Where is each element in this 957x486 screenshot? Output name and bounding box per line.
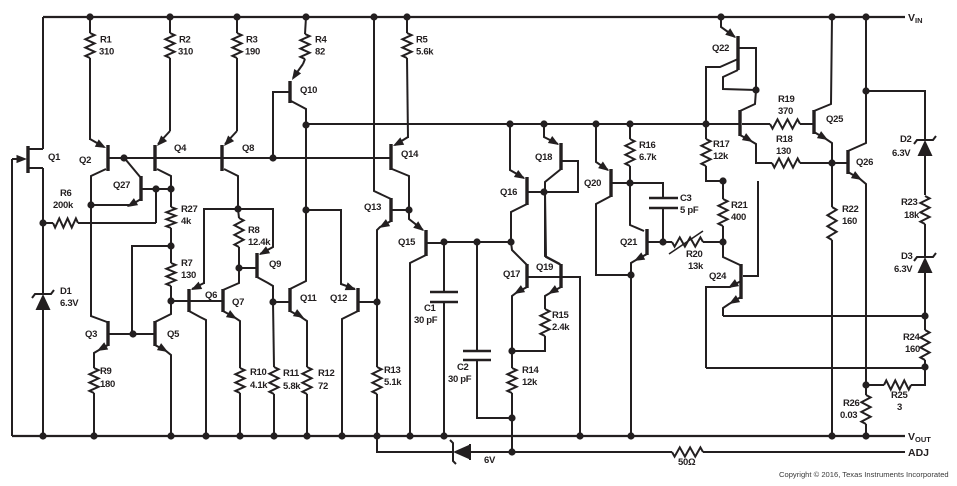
svg-text:Q3: Q3 bbox=[85, 329, 97, 340]
transistor Q14 bbox=[391, 137, 409, 210]
svg-text:5.6k: 5.6k bbox=[416, 46, 434, 57]
junction Q25 emitter / R18 / Q26 base / R22 bbox=[828, 159, 835, 166]
label D4 6V bbox=[484, 455, 496, 466]
transistor Q1 bbox=[12, 146, 43, 173]
transistor Q18 bbox=[544, 124, 578, 264]
label R12 72 bbox=[318, 368, 335, 392]
svg-text:5.8k: 5.8k bbox=[283, 381, 301, 392]
transistor Q7 bbox=[223, 268, 240, 368]
junction VOUT rail / R10 bbox=[236, 432, 243, 439]
label C3 5 pF bbox=[680, 193, 699, 216]
junction D3 / R24 / Q24 emitter2 bbox=[921, 312, 928, 319]
resistor R14 bbox=[507, 351, 516, 452]
label R18 130 bbox=[776, 134, 793, 157]
zener D1 bbox=[32, 223, 54, 436]
label Q6 bbox=[205, 290, 217, 301]
junction top rail / Q22 bbox=[717, 13, 724, 20]
svg-text:Q4: Q4 bbox=[174, 143, 187, 154]
svg-text:3: 3 bbox=[897, 402, 902, 413]
svg-text:5.1k: 5.1k bbox=[384, 377, 402, 388]
junction top rail / Q25 bbox=[828, 13, 835, 20]
resistor R2 bbox=[165, 17, 174, 131]
resistor R1 bbox=[85, 17, 94, 140]
label Q21 bbox=[620, 237, 638, 248]
label Q22 bbox=[712, 43, 729, 54]
label Q16 bbox=[500, 187, 517, 198]
resistor R7 bbox=[166, 246, 175, 301]
transistor Q11 bbox=[273, 125, 307, 367]
svg-text:6.3V: 6.3V bbox=[892, 148, 911, 159]
svg-text:18k: 18k bbox=[904, 210, 920, 221]
svg-text:13k: 13k bbox=[688, 261, 704, 272]
junction base bus / Q27 collector bbox=[120, 154, 127, 161]
junction VOUT rail / C1 bbox=[440, 432, 447, 439]
resistor R24 bbox=[920, 316, 929, 367]
svg-text:Q1: Q1 bbox=[48, 152, 61, 163]
label R11 5.8k bbox=[283, 368, 301, 392]
resistor R4 bbox=[300, 17, 309, 64]
transistor Q10 bbox=[273, 64, 306, 158]
svg-text:Q16: Q16 bbox=[500, 187, 517, 198]
svg-text:R9: R9 bbox=[100, 366, 112, 377]
label R14 12k bbox=[522, 365, 540, 388]
svg-text:R25: R25 bbox=[891, 390, 909, 401]
resistor R22 bbox=[827, 163, 836, 436]
svg-text:Q24: Q24 bbox=[709, 271, 727, 282]
resistor R26 bbox=[861, 385, 870, 436]
svg-text:R14: R14 bbox=[522, 365, 540, 376]
transistor Q26 bbox=[832, 17, 866, 385]
svg-text:130: 130 bbox=[776, 146, 791, 157]
resistor R16 bbox=[625, 124, 634, 183]
svg-text:310: 310 bbox=[99, 46, 114, 57]
svg-text:R26: R26 bbox=[843, 398, 860, 409]
label Q26 bbox=[856, 157, 873, 168]
junction top rail / R4 bbox=[302, 13, 309, 20]
svg-text:Q9: Q9 bbox=[269, 259, 281, 270]
svg-text:370: 370 bbox=[778, 106, 793, 117]
svg-text:R6: R6 bbox=[60, 188, 72, 199]
svg-text:R3: R3 bbox=[246, 34, 258, 45]
copyright notice bbox=[779, 470, 949, 479]
resistor R11 bbox=[269, 302, 278, 436]
svg-text:Q12: Q12 bbox=[330, 293, 347, 304]
svg-text:Q22: Q22 bbox=[712, 43, 729, 54]
svg-text:6V: 6V bbox=[484, 455, 496, 466]
svg-text:C3: C3 bbox=[680, 193, 692, 204]
wire R27 bottom to Q3-Q5 base bbox=[132, 246, 171, 334]
junction C1 top bbox=[440, 238, 447, 245]
label R3 190 bbox=[245, 34, 260, 57]
resistor R15 bbox=[512, 309, 550, 351]
svg-text:Q7: Q7 bbox=[232, 297, 244, 308]
junction R20 / R21 / Q24 collector bbox=[719, 238, 726, 245]
label Q15 bbox=[398, 237, 416, 248]
svg-text:6.7k: 6.7k bbox=[639, 152, 657, 163]
label R8 12.4k bbox=[248, 225, 271, 248]
junction second rail / R16 bbox=[626, 120, 633, 127]
label Q10 bbox=[300, 85, 317, 96]
resistor R10 bbox=[235, 368, 244, 436]
label R7 130 bbox=[181, 258, 196, 281]
junction Q16-Q17 collectors bbox=[507, 238, 514, 245]
svg-text:4k: 4k bbox=[181, 216, 192, 227]
svg-text:R2: R2 bbox=[179, 34, 191, 45]
label Q4 bbox=[174, 143, 187, 154]
resistor R25 bbox=[866, 367, 925, 390]
label R24 160 bbox=[903, 332, 921, 355]
wire base bus bbox=[108, 157, 391, 159]
label R27 4k bbox=[181, 204, 198, 227]
svg-text:Q8: Q8 bbox=[242, 143, 254, 154]
label D3 6.3V bbox=[894, 251, 913, 275]
svg-text:50Ω: 50Ω bbox=[678, 457, 696, 468]
svg-text:Q17: Q17 bbox=[503, 269, 520, 280]
junction second rail / Q10 collector bbox=[302, 121, 309, 128]
junction Q21 emitter / Q20 collector bbox=[627, 271, 634, 278]
transistor Q21 bbox=[630, 183, 663, 436]
label Q27 bbox=[113, 180, 130, 191]
resistor R3 bbox=[232, 17, 241, 131]
svg-text:30 pF: 30 pF bbox=[448, 374, 472, 385]
transistor Q24 bbox=[706, 181, 758, 368]
wire second rail bbox=[306, 123, 740, 125]
label R6 200k bbox=[53, 188, 74, 211]
svg-text:D3: D3 bbox=[901, 251, 913, 262]
svg-text:Q26: Q26 bbox=[856, 157, 873, 168]
svg-text:R20: R20 bbox=[686, 249, 703, 260]
svg-text:R12: R12 bbox=[318, 368, 335, 379]
junction Q17 emitter / R15 / R14 bbox=[508, 347, 515, 354]
wire VIN top rail bbox=[43, 16, 905, 18]
capacitor C1 bbox=[430, 242, 458, 436]
label R5 5.6k bbox=[416, 34, 434, 57]
label Q17 bbox=[503, 269, 520, 280]
label Q7 bbox=[232, 297, 244, 308]
junction Q22 base-collector / Q23 collector bbox=[752, 86, 759, 93]
svg-text:12k: 12k bbox=[713, 151, 729, 162]
junction second rail / R17 / Q22 collector bbox=[702, 120, 709, 127]
svg-text:Q14: Q14 bbox=[401, 149, 419, 160]
junction VOUT rail / R11 bbox=[270, 432, 277, 439]
svg-text:6.3V: 6.3V bbox=[60, 298, 79, 309]
label R2 310 bbox=[178, 34, 193, 57]
label R23 18k bbox=[901, 197, 920, 221]
label Q2 bbox=[79, 155, 91, 166]
svg-text:12.4k: 12.4k bbox=[248, 237, 271, 248]
label R20 13k bbox=[686, 249, 704, 272]
transistor Q8 bbox=[222, 131, 238, 209]
label Q19 bbox=[536, 262, 553, 273]
junction VOUT rail / Q12 bbox=[338, 432, 345, 439]
junction Q3-Q5 base bbox=[129, 330, 136, 337]
junction VOUT rail / Q6 bbox=[202, 432, 209, 439]
svg-text:2.4k: 2.4k bbox=[552, 322, 570, 333]
label R9 180 bbox=[100, 366, 115, 390]
label Q24 bbox=[709, 271, 727, 282]
svg-text:R10: R10 bbox=[250, 367, 267, 378]
svg-text:Q13: Q13 bbox=[364, 202, 381, 213]
junction top rail / R1 bbox=[86, 13, 93, 20]
junction VOUT rail / R26 bbox=[862, 432, 869, 439]
wire Q27 base to R6 bbox=[155, 189, 157, 223]
junction R8 / Q9 base / Q7 collector bbox=[235, 264, 242, 271]
junction VOUT rail / R13/ADJ bbox=[373, 432, 380, 439]
junction second rail / Q16 emitter bbox=[506, 120, 513, 127]
svg-text:R18: R18 bbox=[776, 134, 793, 145]
resistor R17 bbox=[701, 124, 723, 181]
label R17 12k bbox=[713, 139, 730, 162]
wire Q26 collector to D2 bbox=[866, 91, 925, 133]
transistor Q6 bbox=[189, 282, 206, 436]
label Q14 bbox=[401, 149, 419, 160]
label R22 160 bbox=[842, 204, 859, 227]
resistor R12 bbox=[302, 367, 311, 436]
label Q9 bbox=[269, 259, 281, 270]
junction Q14 collector / Q13 base / Q15 emitter bbox=[405, 206, 412, 213]
svg-text:D2: D2 bbox=[900, 134, 912, 145]
svg-text:6.3V: 6.3V bbox=[894, 264, 913, 275]
svg-text:Q6: Q6 bbox=[205, 290, 217, 301]
transistor Q9 bbox=[239, 209, 273, 302]
junction Q16 base / Q18 base / Q19 collector bbox=[540, 188, 547, 195]
svg-text:R24: R24 bbox=[903, 332, 921, 343]
label R26 0.03 bbox=[840, 398, 860, 421]
junction Q11 collector / Q12 emitter bbox=[302, 206, 309, 213]
transistor Q17 bbox=[511, 242, 580, 436]
transistor Q19 bbox=[545, 192, 561, 309]
junction Q26 collector / D2 branch bbox=[862, 87, 869, 94]
wire Q8 collector node to Q6 emitter bbox=[204, 209, 238, 284]
label R25 3 bbox=[891, 390, 909, 413]
svg-text:Q19: Q19 bbox=[536, 262, 553, 273]
transistor Q3 bbox=[94, 321, 155, 368]
svg-text:R27: R27 bbox=[181, 204, 198, 215]
zener D3 bbox=[914, 250, 936, 316]
junction R17 / R21 / Q24 base bbox=[719, 177, 726, 184]
label Q8 bbox=[242, 143, 254, 154]
svg-text:72: 72 bbox=[318, 381, 328, 392]
svg-text:R21: R21 bbox=[731, 200, 749, 211]
svg-text:R17: R17 bbox=[713, 139, 730, 150]
transistor Q13 bbox=[374, 17, 409, 302]
svg-text:R13: R13 bbox=[384, 365, 401, 376]
svg-text:C2: C2 bbox=[457, 362, 469, 373]
wire Q15 base / C1 / Q16-Q17 collectors bbox=[443, 241, 511, 243]
zener D2 bbox=[914, 133, 936, 195]
wire Q1 source down bbox=[42, 168, 44, 223]
terminal ADJ label bbox=[908, 447, 929, 459]
junction Q21 collector / C3 / R20 bbox=[659, 238, 666, 245]
transistor Q22 bbox=[706, 17, 756, 124]
label R16 6.7k bbox=[639, 140, 657, 163]
transistor Q15 bbox=[409, 210, 443, 436]
svg-text:160: 160 bbox=[842, 216, 857, 227]
junction Q27 base / R6 bbox=[152, 185, 159, 192]
transistor Q16 bbox=[510, 124, 544, 242]
terminal VOUT label bbox=[908, 431, 931, 444]
junction top rail / R5 bbox=[403, 13, 410, 20]
junction C2 / R14 bbox=[508, 414, 515, 421]
label R21 400 bbox=[731, 200, 749, 223]
resistor R21 bbox=[718, 181, 727, 242]
svg-text:Q5: Q5 bbox=[167, 329, 180, 340]
svg-text:D1: D1 bbox=[60, 286, 73, 297]
junction R6 / Q1 source bbox=[39, 219, 46, 226]
junction ADJ / R14 bbox=[508, 448, 515, 455]
resistor R5 bbox=[402, 17, 411, 138]
junction R24 / R25 / Q24 emitter1 bbox=[921, 363, 928, 370]
svg-text:ADJ: ADJ bbox=[908, 447, 929, 459]
junction VOUT rail / Q15 bbox=[406, 432, 413, 439]
label R15 2.4k bbox=[552, 310, 570, 333]
wire Q6-Q7 base line bbox=[171, 300, 223, 302]
transistor Q20 bbox=[596, 124, 631, 275]
transistor Q2 bbox=[90, 139, 108, 322]
svg-text:Q15: Q15 bbox=[398, 237, 416, 248]
svg-text:R11: R11 bbox=[283, 368, 300, 379]
capacitor C3 bbox=[630, 183, 678, 242]
junction base bus / Q10 base bbox=[269, 154, 276, 161]
junction second rail / Q18 emitter bbox=[540, 120, 547, 127]
terminal VIN label bbox=[908, 12, 923, 25]
wire Q24 emitter1 to R24 bottom bbox=[706, 367, 925, 369]
svg-text:Q10: Q10 bbox=[300, 85, 317, 96]
junction VOUT rail / D1 bbox=[39, 432, 46, 439]
svg-text:Q2: Q2 bbox=[79, 155, 91, 166]
svg-text:Q27: Q27 bbox=[113, 180, 130, 191]
label R19 370 bbox=[778, 94, 795, 117]
svg-text:180: 180 bbox=[100, 379, 115, 390]
label Q1 bbox=[48, 152, 61, 163]
svg-text:Q11: Q11 bbox=[300, 293, 318, 304]
label R10 4.1k bbox=[250, 367, 268, 391]
junction R25 / R26 / Q26 emitter bbox=[862, 381, 869, 388]
svg-text:R7: R7 bbox=[181, 258, 193, 269]
junction top rail / R2 bbox=[166, 13, 173, 20]
resistor R20 bbox=[663, 231, 723, 254]
svg-text:0.03: 0.03 bbox=[840, 410, 857, 421]
svg-text:82: 82 bbox=[315, 46, 325, 57]
junction Q27 emitter / Q2 collector bbox=[87, 201, 94, 208]
junction top rail / R3 bbox=[233, 13, 240, 20]
junction VOUT rail / R12 bbox=[303, 432, 310, 439]
svg-text:400: 400 bbox=[731, 212, 746, 223]
svg-text:Q25: Q25 bbox=[826, 114, 844, 125]
svg-text:310: 310 bbox=[178, 46, 193, 57]
junction VOUT rail / Q5 bbox=[167, 432, 174, 439]
junction second rail / Q20 emitter bbox=[592, 120, 599, 127]
svg-text:Q21: Q21 bbox=[620, 237, 638, 248]
svg-text:R19: R19 bbox=[778, 94, 795, 105]
transistor Q4 bbox=[155, 131, 171, 189]
label R1 310 bbox=[99, 34, 114, 57]
transistor Q5 bbox=[155, 301, 171, 436]
label D2 6.3V bbox=[892, 134, 912, 159]
junction Q13 emitter / Q12 base / R13 bbox=[373, 298, 380, 305]
svg-text:30 pF: 30 pF bbox=[414, 315, 438, 326]
wire ADJ line bbox=[377, 436, 905, 452]
label R4 82 bbox=[315, 34, 328, 57]
wire VOUT rail bbox=[12, 435, 905, 437]
svg-text:R23: R23 bbox=[901, 197, 918, 208]
label 50 ohm bbox=[678, 457, 696, 468]
label Q11 bbox=[300, 293, 318, 304]
label R13 5.1k bbox=[384, 365, 402, 388]
resistor 50 ohm bbox=[672, 447, 703, 456]
resistor R13 bbox=[372, 302, 381, 436]
label Q12 bbox=[330, 293, 347, 304]
junction VOUT rail / R22 bbox=[828, 432, 835, 439]
transistor Q23 bbox=[740, 90, 772, 163]
junction top rail / Q13 collector bbox=[370, 13, 377, 20]
resistor R8 bbox=[234, 209, 243, 268]
svg-text:R5: R5 bbox=[416, 34, 429, 45]
svg-text:C1: C1 bbox=[424, 303, 437, 314]
svg-text:200k: 200k bbox=[53, 200, 74, 211]
junction top rail / Q26 bbox=[862, 13, 869, 20]
svg-text:R1: R1 bbox=[100, 34, 113, 45]
label Q13 bbox=[364, 202, 381, 213]
resistor R19 bbox=[742, 119, 813, 128]
junction VOUT rail / R9 bbox=[90, 432, 97, 439]
svg-text:Q20: Q20 bbox=[584, 178, 601, 189]
svg-text:160: 160 bbox=[905, 344, 920, 355]
transistor Q27 bbox=[91, 160, 171, 207]
label C1 30 pF bbox=[414, 303, 438, 326]
svg-text:R4: R4 bbox=[315, 34, 328, 45]
label C2 30 pF bbox=[448, 362, 472, 385]
svg-text:Copyright © 2016, Texas Instru: Copyright © 2016, Texas Instruments Inco… bbox=[779, 470, 949, 479]
junction R27 / R7 / Q3 base branch bbox=[167, 242, 174, 249]
junction Q8 collector / R8 top bbox=[234, 205, 241, 212]
label Q18 bbox=[535, 152, 552, 163]
junction VOUT rail / Q17 base line bbox=[576, 432, 583, 439]
wire Q24 emitter2 to D3 bottom bbox=[723, 315, 925, 317]
svg-text:R15: R15 bbox=[552, 310, 570, 321]
resistor R27 bbox=[166, 189, 175, 246]
wire Q1 drain to VIN bbox=[42, 17, 44, 149]
wire Q8 collector node to Q9 emitter bbox=[238, 209, 273, 247]
label Q20 bbox=[584, 178, 601, 189]
svg-text:190: 190 bbox=[245, 46, 260, 57]
transistor Q12 bbox=[306, 210, 377, 436]
junction R7 / Q5 collector / Q6 base bbox=[167, 297, 174, 304]
junction VOUT rail / Q21 bbox=[627, 432, 634, 439]
zener D4 6V bbox=[450, 440, 470, 464]
svg-text:Q18: Q18 bbox=[535, 152, 552, 163]
label Q25 bbox=[826, 114, 844, 125]
junction R16 / Q20 base / C3 / Q21 bbox=[626, 179, 633, 186]
transistor Q25 bbox=[814, 17, 832, 163]
junction C2 branch bbox=[473, 238, 480, 245]
resistor R6 bbox=[43, 218, 156, 227]
junction Q4 collector / R27 bbox=[167, 185, 174, 192]
junction Q9 collector / Q11 base / R11 bbox=[269, 298, 276, 305]
capacitor C2 bbox=[463, 242, 512, 418]
resistor R18 bbox=[772, 158, 832, 167]
svg-text:12k: 12k bbox=[522, 377, 538, 388]
svg-text:4.1k: 4.1k bbox=[250, 380, 268, 391]
svg-text:R22: R22 bbox=[842, 204, 859, 215]
label Q5 bbox=[167, 329, 180, 340]
label D1 6.3V bbox=[60, 286, 79, 309]
label Q3 bbox=[85, 329, 97, 340]
svg-text:5 pF: 5 pF bbox=[680, 205, 699, 216]
wire Q1 gate down left edge bbox=[11, 159, 13, 436]
svg-text:R8: R8 bbox=[248, 225, 260, 236]
resistor R9 bbox=[89, 368, 98, 436]
